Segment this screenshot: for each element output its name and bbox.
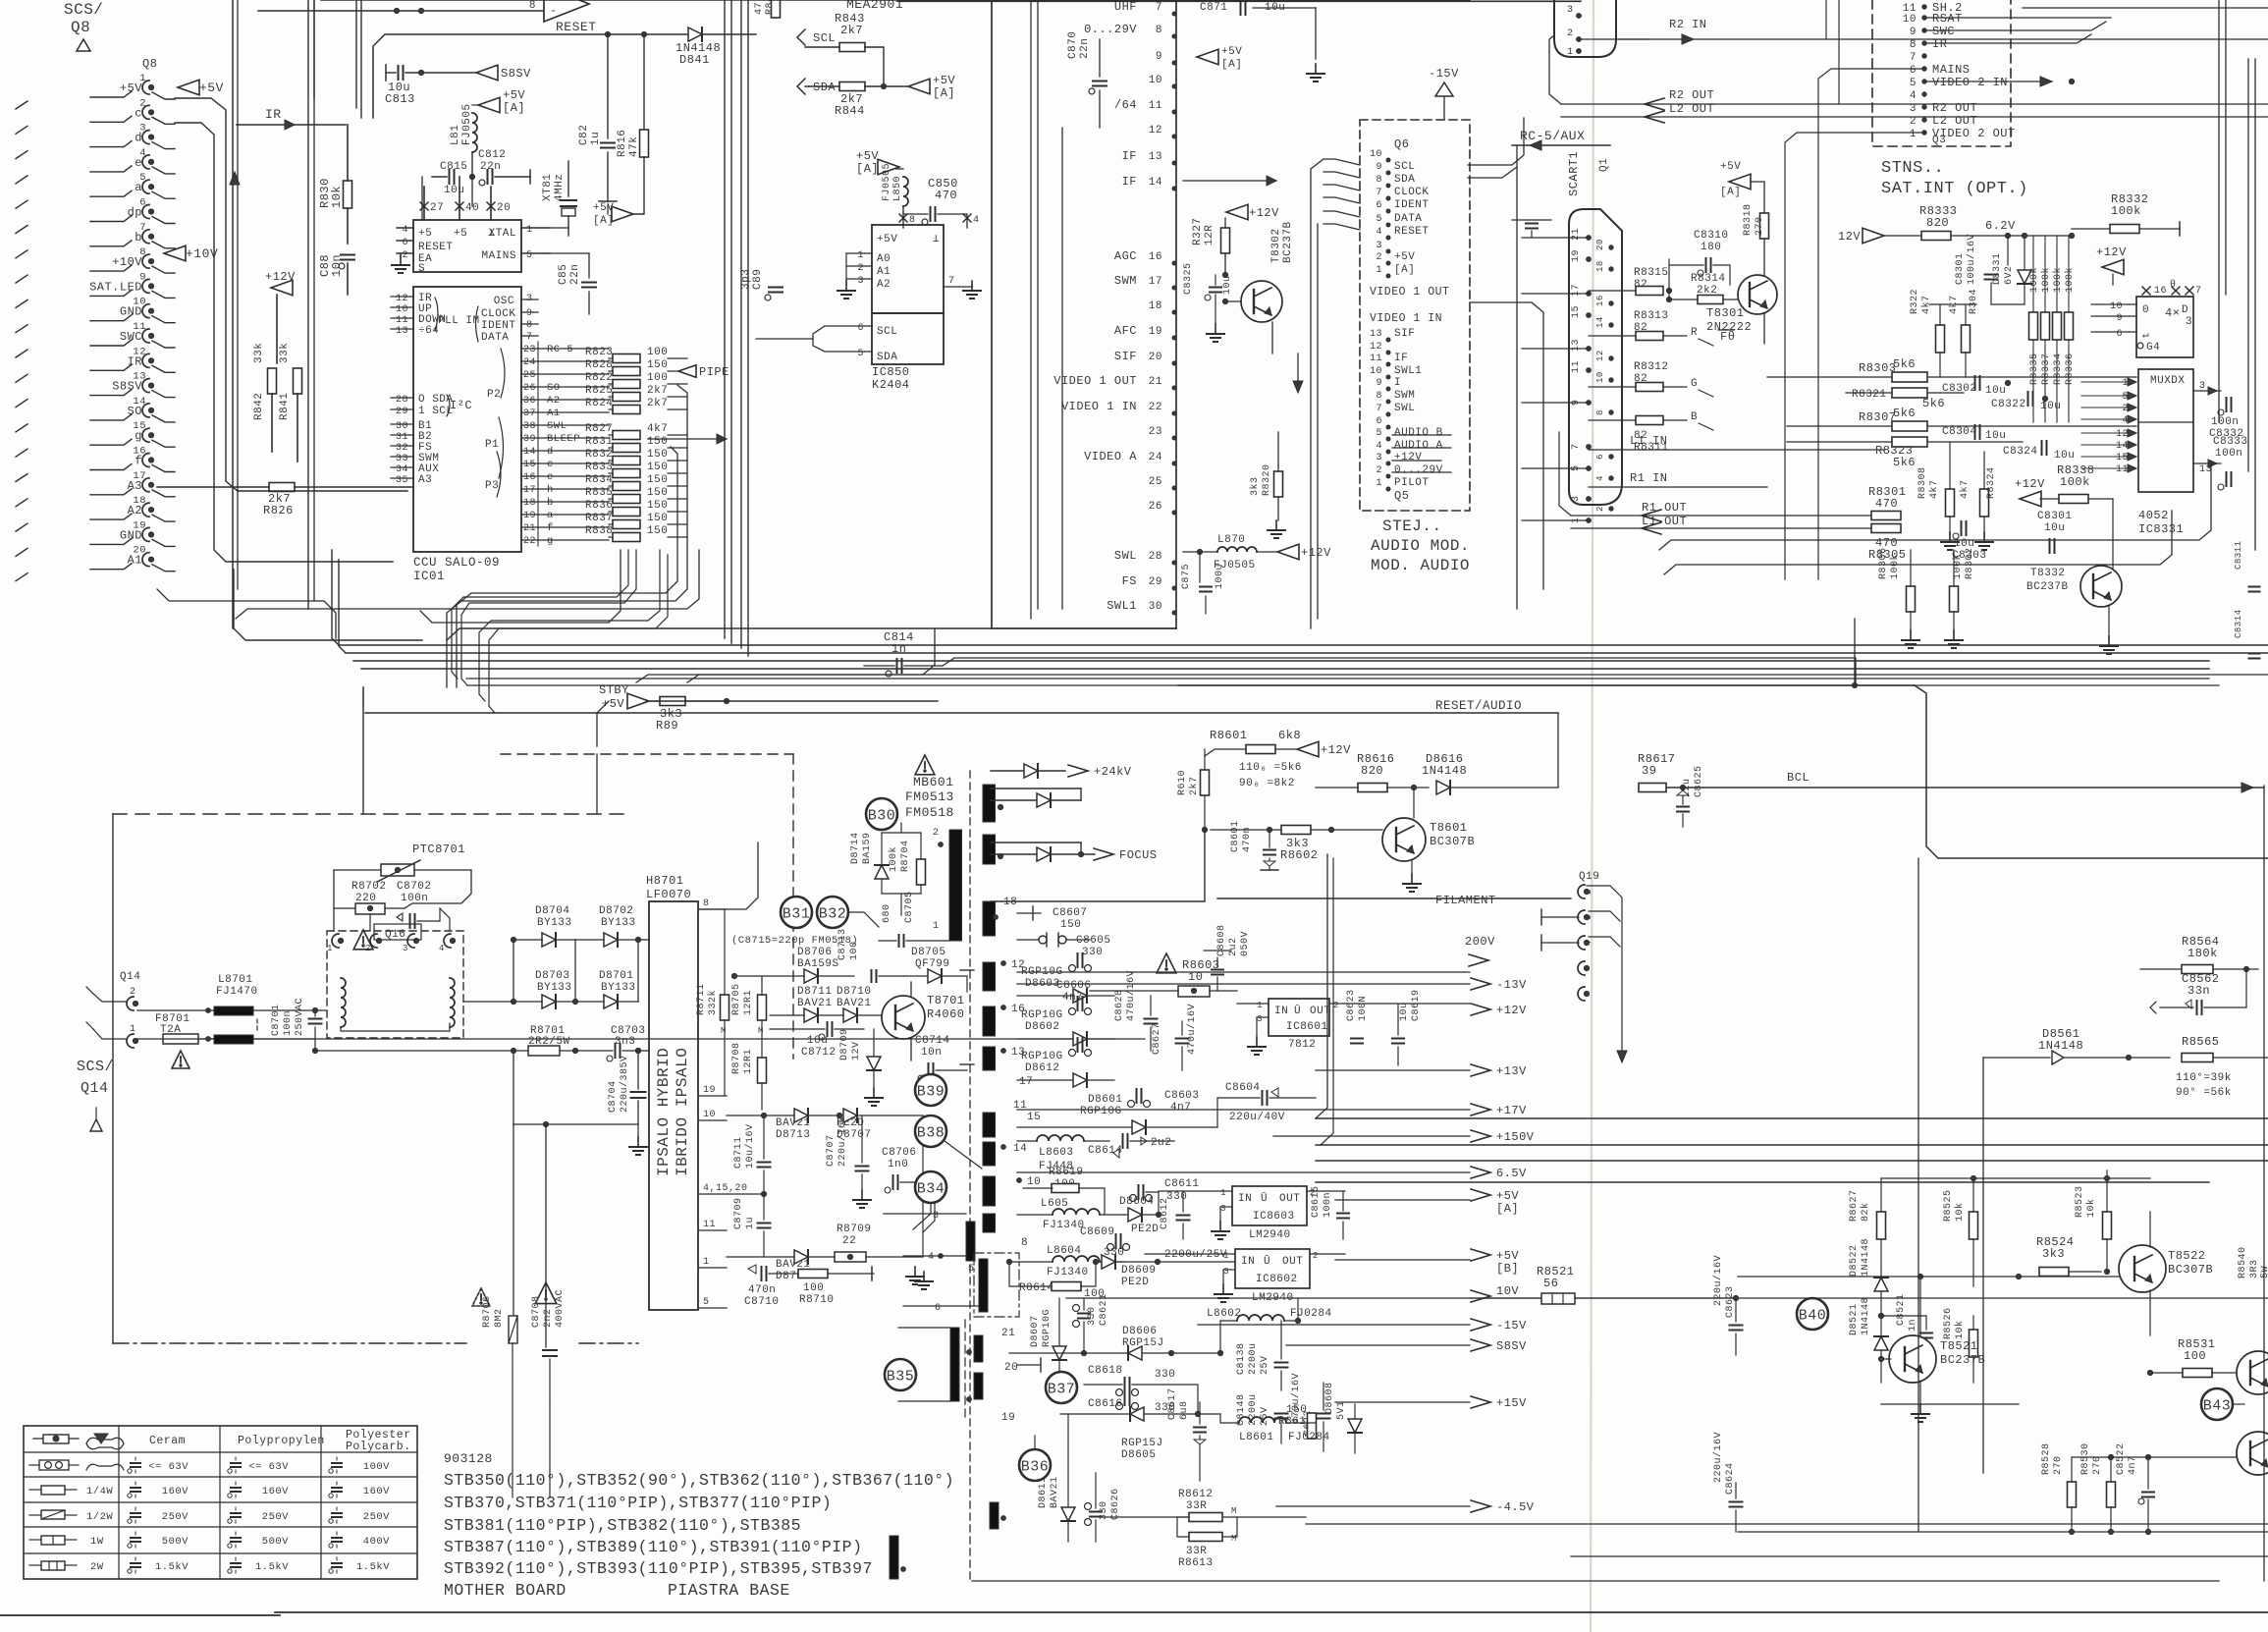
pin 24 VIDEO A bbox=[1084, 450, 1176, 465]
wire bbox=[1587, 886, 1622, 1029]
svg-text:B: B bbox=[1691, 411, 1698, 423]
wire bbox=[1017, 1109, 1470, 1111]
power +5V[A] arrow bbox=[593, 202, 633, 227]
svg-text:R4060: R4060 bbox=[927, 1007, 965, 1021]
svg-text:2200u: 2200u bbox=[1248, 1342, 1259, 1375]
circle B40 bbox=[1797, 1298, 1828, 1330]
svg-text:VIDEO 1 OUT: VIDEO 1 OUT bbox=[1053, 374, 1137, 388]
svg-text:+24kV: +24kV bbox=[1094, 765, 1132, 779]
resistor R8708 12R1 bbox=[731, 1042, 767, 1110]
svg-text:R8530: R8530 bbox=[2080, 1442, 2091, 1475]
svg-text:C8708: C8708 bbox=[531, 1295, 542, 1328]
legend cap 1.5kV bbox=[228, 1557, 289, 1573]
svg-text:a: a bbox=[547, 510, 554, 521]
pin MUX 5 bbox=[2081, 392, 2136, 403]
svg-text:200V: 200V bbox=[1465, 935, 1495, 949]
svg-text:33k: 33k bbox=[279, 343, 291, 363]
svg-text:C8616: C8616 bbox=[1088, 1398, 1123, 1410]
resistor R837 150 bbox=[585, 513, 687, 529]
svg-text:D8711: D8711 bbox=[797, 986, 833, 998]
svg-text:D8611: D8611 bbox=[1038, 1476, 1049, 1508]
svg-text:10u: 10u bbox=[2054, 450, 2075, 462]
wire bbox=[1286, 1344, 1470, 1346]
label AUDIO MOD. bbox=[1371, 537, 1470, 555]
label IBRIDO IPSALO bbox=[674, 1048, 691, 1176]
svg-text:RGP10G: RGP10G bbox=[1021, 1051, 1063, 1062]
svg-text:R8601: R8601 bbox=[1210, 729, 1248, 742]
svg-text:C8707: C8707 bbox=[826, 1134, 837, 1167]
svg-text:Fθ: Fθ bbox=[1720, 330, 1735, 344]
svg-text:C871: C871 bbox=[1200, 2, 1227, 14]
svg-text:C8710: C8710 bbox=[744, 1296, 780, 1308]
svg-text:IC01: IC01 bbox=[413, 570, 445, 583]
connector Q8 pin 9 (SAT.LED) bbox=[16, 271, 154, 307]
table header Polypropylen bbox=[238, 1435, 325, 1447]
svg-text:15: 15 bbox=[1027, 1112, 1041, 1123]
svg-text:39: 39 bbox=[523, 434, 536, 445]
svg-text:+12V: +12V bbox=[1394, 452, 1422, 463]
svg-text:12R1: 12R1 bbox=[743, 990, 754, 1015]
pin 28 SWL bbox=[1114, 549, 1176, 565]
label Q3 bbox=[1932, 135, 1946, 146]
svg-text:SCL: SCL bbox=[813, 31, 836, 45]
svg-text:20: 20 bbox=[1595, 239, 1605, 250]
svg-text:R824: R824 bbox=[585, 398, 613, 409]
wire vline 1345 bbox=[1321, 858, 1333, 1145]
power +5V arrow bbox=[178, 80, 224, 95]
pin B1 bbox=[391, 420, 432, 432]
svg-text:C815: C815 bbox=[440, 161, 467, 173]
wire bbox=[152, 117, 175, 124]
svg-text:RC-5/AUX: RC-5/AUX bbox=[1520, 129, 1585, 143]
svg-text:B34: B34 bbox=[917, 1181, 945, 1198]
svg-text:+17V: +17V bbox=[1496, 1104, 1527, 1117]
diode D8331 6V2 bbox=[1992, 233, 2031, 304]
svg-text:P1: P1 bbox=[485, 439, 499, 451]
svg-text:CCU SALO-09: CCU SALO-09 bbox=[413, 556, 500, 570]
wire bbox=[1198, 1324, 1470, 1326]
svg-text:2: 2 bbox=[1584, 889, 1593, 895]
svg-text:18: 18 bbox=[523, 498, 536, 509]
svg-text:1N4148: 1N4148 bbox=[1861, 1297, 1871, 1335]
wire filament bbox=[1217, 894, 1571, 907]
pin 1 PILOT bbox=[1376, 477, 1429, 491]
svg-text:180k: 180k bbox=[2187, 947, 2218, 960]
capacitor C8521 1n bbox=[1881, 1293, 1932, 1375]
transformer winding bar bbox=[983, 1006, 996, 1036]
pin 4 bbox=[439, 934, 456, 953]
svg-text:10k: 10k bbox=[1954, 1202, 1966, 1222]
diode D841 1N4148 bbox=[675, 27, 721, 67]
label STB392(110 bbox=[444, 1559, 873, 1578]
pin STNS 4 - bbox=[1910, 90, 1926, 102]
svg-text:10n: 10n bbox=[921, 1047, 942, 1059]
pin MUX 11 bbox=[2081, 464, 2136, 475]
svg-text:R2 OUT: R2 OUT bbox=[1669, 88, 1714, 102]
power output -4.5V bbox=[1471, 1500, 1535, 1514]
resistor R8323 5k6 bbox=[1787, 437, 2023, 469]
pin 23 RC-5 bbox=[521, 344, 609, 355]
wire up arrow bbox=[230, 172, 240, 185]
svg-text:SCL: SCL bbox=[877, 326, 897, 338]
svg-text:10: 10 bbox=[1370, 149, 1382, 160]
pin 4 AUDIO A bbox=[1376, 440, 1442, 454]
capacitor C8614 2u2 bbox=[1088, 1134, 1174, 1158]
pin 15 bbox=[1027, 1112, 1041, 1123]
svg-text:SWL: SWL bbox=[547, 420, 567, 432]
pin SCART 2 bbox=[1595, 506, 1613, 512]
svg-text:2u2: 2u2 bbox=[1151, 1137, 1171, 1149]
svg-text:150: 150 bbox=[647, 487, 668, 499]
wire bbox=[1825, 0, 1827, 39]
wire bbox=[2072, 1394, 2237, 1457]
svg-text:IF: IF bbox=[1122, 149, 1137, 163]
svg-text:6: 6 bbox=[1376, 416, 1382, 427]
svg-text:G4: G4 bbox=[2146, 342, 2160, 354]
capacitor C8302 10u bbox=[1942, 376, 2011, 397]
resistor R8601 6k8 bbox=[1205, 729, 1301, 756]
connector SCART top shell bbox=[1554, 0, 1616, 57]
svg-text:220u/16V: 220u/16V bbox=[1712, 1432, 1724, 1483]
svg-text:R844: R844 bbox=[835, 104, 865, 118]
resistor R8318 270 bbox=[1743, 182, 1769, 276]
pin MAINS bbox=[481, 250, 550, 262]
pin AUX bbox=[391, 463, 439, 475]
svg-text:FJ0284: FJ0284 bbox=[1290, 1308, 1332, 1320]
svg-text:1: 1 bbox=[1223, 1251, 1229, 1261]
wire L1 OUT bbox=[1571, 515, 1870, 534]
svg-text:330: 330 bbox=[1082, 947, 1103, 958]
pin 14 IF bbox=[1122, 175, 1176, 190]
svg-text:SWL1: SWL1 bbox=[1107, 599, 1137, 613]
capacitor C8628 470u/16V bbox=[1114, 970, 1158, 1051]
pin SCART 19 bbox=[1571, 249, 1591, 262]
svg-text:FJ1470: FJ1470 bbox=[216, 986, 258, 998]
svg-text:10u: 10u bbox=[1985, 430, 2006, 442]
wire bbox=[152, 490, 175, 497]
svg-text:R825: R825 bbox=[585, 385, 613, 397]
wire bbox=[86, 987, 126, 1039]
label 6.2V bbox=[1985, 219, 2075, 239]
capacitor C814 1n bbox=[864, 630, 943, 677]
wire loop2 bbox=[420, 550, 621, 623]
pin IPSALO 5 bbox=[699, 1297, 727, 1308]
power 12V arrow bbox=[1838, 228, 1921, 244]
pin Q19 2 bbox=[1578, 910, 1593, 924]
svg-text:150: 150 bbox=[647, 525, 668, 537]
svg-text:9: 9 bbox=[1376, 378, 1382, 389]
pin 3 bbox=[884, 1211, 966, 1222]
svg-text:19: 19 bbox=[1571, 249, 1582, 262]
svg-text:220u/40V: 220u/40V bbox=[1229, 1112, 1285, 1123]
svg-text:9: 9 bbox=[1156, 51, 1162, 63]
svg-text:+13V: +13V bbox=[1496, 1064, 1527, 1078]
svg-text:470: 470 bbox=[935, 189, 957, 202]
pin 22 VIDEO 1 IN bbox=[1061, 400, 1176, 415]
resistor R8523 10k bbox=[2075, 1170, 2112, 1272]
pin STNS 9 SWC bbox=[1910, 25, 1955, 38]
power output 6.5V bbox=[1471, 1167, 1527, 1180]
svg-text:IR: IR bbox=[265, 107, 282, 122]
svg-text:S8SV: S8SV bbox=[501, 67, 531, 81]
ground bbox=[1403, 874, 1421, 892]
capacitor C8601 470n bbox=[1230, 820, 1278, 870]
capacitor C8301 100u/16V bbox=[1955, 234, 2008, 304]
resistor R8332 100k bbox=[2072, 192, 2180, 236]
transistor T8601 BC307B bbox=[1382, 788, 1475, 877]
pin 2 bbox=[127, 987, 138, 1010]
junction bbox=[469, 174, 474, 179]
resistor R8702 220 bbox=[334, 881, 405, 914]
transformer winding bar bbox=[950, 1328, 959, 1401]
wire pin 4,15,20 bbox=[727, 1193, 776, 1195]
resistor R825 2k7 bbox=[585, 385, 687, 402]
svg-text:Polypropylen: Polypropylen bbox=[238, 1435, 325, 1447]
svg-text:5: 5 bbox=[526, 250, 533, 261]
wire bbox=[1541, 909, 1579, 925]
svg-text:R826: R826 bbox=[263, 504, 294, 517]
svg-text:100N: 100N bbox=[1358, 996, 1369, 1021]
svg-text:100: 100 bbox=[647, 372, 668, 384]
svg-text:3k3: 3k3 bbox=[2042, 1247, 2065, 1261]
svg-text:S8SV: S8SV bbox=[1496, 1339, 1527, 1353]
capacitor C8324 10u bbox=[2003, 441, 2075, 462]
svg-text:[A]: [A] bbox=[933, 86, 955, 100]
capacitor C622 470u/16V bbox=[1290, 1373, 1330, 1451]
connector Q8 pin 6 (dp) bbox=[16, 197, 154, 234]
svg-text:R8565: R8565 bbox=[2182, 1035, 2220, 1049]
svg-text:30: 30 bbox=[1149, 601, 1162, 613]
diode D8604 PE2D bbox=[1119, 1196, 1161, 1235]
svg-text:12: 12 bbox=[1149, 125, 1162, 136]
label CLOCK IDENT DATA bbox=[476, 306, 516, 344]
svg-text:1: 1 bbox=[1257, 1001, 1263, 1010]
svg-text:9: 9 bbox=[1376, 162, 1382, 173]
pin SCART 20 bbox=[1595, 239, 1613, 250]
svg-text:P2: P2 bbox=[487, 389, 501, 401]
pin 40 mark bbox=[454, 177, 479, 240]
pin 8 0...29V bbox=[1084, 23, 1176, 38]
capacitor C8311 bbox=[2234, 540, 2260, 591]
circle B37 bbox=[1046, 1372, 1077, 1403]
pin SWM bbox=[391, 453, 439, 464]
IC8602 LM2940 bbox=[1145, 1249, 1345, 1304]
pin 14 d bbox=[521, 446, 609, 458]
svg-text:1u: 1u bbox=[745, 1217, 756, 1229]
svg-text:IR: IR bbox=[1932, 37, 1947, 51]
wire bbox=[1330, 830, 1332, 837]
pin MUX 14 bbox=[2081, 441, 2136, 452]
transformer winding bar bbox=[990, 1502, 1005, 1529]
svg-text:-15V: -15V bbox=[1429, 67, 1459, 81]
svg-text:D: D bbox=[2182, 304, 2188, 316]
power +12V arrow bbox=[2096, 245, 2127, 285]
svg-text:C8625: C8625 bbox=[1694, 765, 1704, 797]
pin MUX 13 bbox=[2193, 460, 2221, 475]
svg-text:1: 1 bbox=[933, 921, 940, 932]
circle B43 bbox=[2201, 1388, 2244, 1420]
label 110=39k bbox=[2176, 1072, 2232, 1099]
capacitor C8607 150 bbox=[1017, 907, 1090, 947]
svg-text:R8308: R8308 bbox=[1917, 466, 1928, 499]
wire bbox=[1557, 713, 1559, 788]
power +5V[A] arrow bbox=[908, 74, 955, 100]
svg-text:1: 1 bbox=[857, 250, 864, 261]
capacitor C8625 22u bbox=[1677, 765, 1704, 827]
svg-text:160V: 160V bbox=[162, 1486, 189, 1497]
label IC850 K2404 bbox=[872, 365, 910, 392]
svg-text:7: 7 bbox=[1910, 52, 1917, 64]
wire bbox=[1323, 172, 1360, 178]
svg-text:+5V: +5V bbox=[503, 88, 525, 102]
label STB350(110 bbox=[444, 1471, 954, 1490]
svg-text:PLL IM: PLL IM bbox=[438, 315, 480, 327]
transistor T8522 BC307B bbox=[2119, 1212, 2213, 1335]
capacitor C8612 2200u/25V bbox=[1160, 1191, 1227, 1261]
label STB370,STB bbox=[444, 1494, 832, 1512]
legend cap 250V bbox=[329, 1507, 390, 1523]
svg-text:8M2: 8M2 bbox=[494, 1308, 505, 1328]
svg-text:C8314: C8314 bbox=[2234, 609, 2243, 638]
wire scart loops2 bbox=[1664, 511, 2172, 574]
pin SCART 15 bbox=[1571, 305, 1591, 318]
svg-text:STNS..: STNS.. bbox=[1881, 159, 1944, 178]
svg-text:STB387(110°),STB389(110°),STB3: STB387(110°),STB389(110°),STB391(110°PIP… bbox=[444, 1538, 862, 1556]
svg-text:31: 31 bbox=[396, 432, 408, 443]
resistor R8711 332k bbox=[696, 909, 729, 1095]
capacitor C8624 220u/16V bbox=[1712, 1432, 1743, 1532]
svg-text:250V: 250V bbox=[363, 1511, 390, 1523]
wire bbox=[747, 0, 749, 656]
svg-text:10: 10 bbox=[2110, 301, 2123, 312]
resistor R8338 100k bbox=[2040, 463, 2113, 504]
svg-text:B36: B36 bbox=[1021, 1459, 1050, 1476]
inductor L8701 FJ1470 bbox=[137, 974, 327, 1044]
svg-text:11: 11 bbox=[703, 1220, 716, 1230]
svg-text:LM2940: LM2940 bbox=[1249, 1229, 1291, 1241]
svg-text:7812: 7812 bbox=[1288, 1039, 1316, 1051]
svg-text:R8526: R8526 bbox=[1943, 1307, 1954, 1339]
svg-text:22n: 22n bbox=[1079, 38, 1091, 59]
resistor R822 100 bbox=[585, 372, 687, 389]
svg-text:8: 8 bbox=[529, 0, 536, 12]
svg-text:L8601: L8601 bbox=[1239, 1432, 1274, 1443]
pin SCART 1 bbox=[1571, 517, 1591, 523]
pin 13 SIF bbox=[1370, 328, 1415, 342]
resistor R833 150 bbox=[585, 462, 687, 478]
transistor T2 bbox=[2237, 1432, 2268, 1475]
svg-text:AUDIO MOD.: AUDIO MOD. bbox=[1371, 537, 1470, 555]
svg-text:150: 150 bbox=[647, 449, 668, 461]
svg-text:C8605: C8605 bbox=[1076, 935, 1111, 947]
pin DOWN bbox=[391, 314, 446, 326]
resistor R8334 100k bbox=[2052, 236, 2064, 422]
svg-text:STB370,STB371(110°PIP),STB377(: STB370,STB371(110°PIP),STB377(110°PIP) bbox=[444, 1494, 832, 1512]
wire bbox=[1316, 1181, 2209, 1183]
svg-text:C8521: C8521 bbox=[1896, 1293, 1907, 1326]
svg-text:PE2D: PE2D bbox=[1131, 1224, 1159, 1235]
pin 12 - bbox=[1149, 125, 1176, 138]
svg-text:FS: FS bbox=[1122, 574, 1137, 588]
svg-text:10: 10 bbox=[1149, 75, 1162, 86]
svg-text:15: 15 bbox=[1571, 305, 1582, 318]
warning R8603 10 bbox=[1090, 953, 1237, 997]
svg-text:D8704: D8704 bbox=[535, 905, 570, 917]
label STB381(110 bbox=[444, 1516, 801, 1535]
wire bbox=[1917, 858, 1919, 1532]
pin 6 bbox=[2091, 329, 2136, 340]
svg-text:SCL: SCL bbox=[1394, 161, 1415, 173]
svg-text:160V: 160V bbox=[363, 1486, 390, 1497]
connector Q8 pin 20 (A1) bbox=[16, 545, 154, 581]
diode D8602 RGP10G bbox=[1017, 980, 1114, 1046]
wire IR line bbox=[237, 107, 346, 130]
svg-text:13: 13 bbox=[1370, 329, 1382, 340]
resistor R89 3k3 bbox=[646, 697, 729, 734]
svg-text:b: b bbox=[547, 497, 554, 509]
svg-text:4k7: 4k7 bbox=[1959, 479, 1971, 499]
wire bus bbox=[175, 123, 393, 562]
wire dashed section divider bbox=[113, 813, 628, 815]
svg-text:FM0518: FM0518 bbox=[905, 805, 954, 820]
svg-text:SCART1: SCART1 bbox=[1567, 151, 1581, 196]
pin 18 bbox=[994, 897, 1018, 919]
svg-text:L850: L850 bbox=[892, 176, 903, 201]
power +5V[A] arrow bbox=[478, 88, 525, 115]
svg-text:SDA: SDA bbox=[813, 81, 836, 94]
wire bbox=[537, 444, 539, 457]
svg-text:330: 330 bbox=[1155, 1369, 1175, 1381]
connector Q8 pin 5 (a) bbox=[16, 172, 154, 208]
svg-text:3: 3 bbox=[2199, 381, 2206, 392]
connector Q8 bbox=[142, 57, 157, 71]
svg-text:L605: L605 bbox=[1041, 1198, 1068, 1210]
pin 8 bbox=[1021, 1237, 1028, 1249]
svg-text:A2: A2 bbox=[547, 395, 561, 407]
capacitor C8522 4n7 bbox=[2116, 1442, 2154, 1532]
resistor R8524 3k3 bbox=[2019, 1235, 2110, 1277]
svg-text:R838: R838 bbox=[585, 525, 613, 537]
svg-text:B37: B37 bbox=[1048, 1382, 1076, 1398]
pin 9 bbox=[521, 308, 538, 319]
svg-text:IDENT: IDENT bbox=[1394, 199, 1430, 211]
ground bbox=[1307, 64, 1324, 82]
svg-text:10u: 10u bbox=[1985, 385, 2006, 397]
svg-text:82k: 82k bbox=[1860, 1202, 1871, 1222]
pin 13 bbox=[1001, 1047, 1026, 1059]
label Q5 bbox=[1394, 489, 1409, 503]
svg-text:C8626: C8626 bbox=[1110, 1488, 1121, 1520]
svg-text:D841: D841 bbox=[679, 53, 710, 67]
legend cap 160V bbox=[228, 1482, 289, 1497]
resistor R838 150 bbox=[585, 525, 687, 542]
svg-text:10k: 10k bbox=[2085, 1198, 2097, 1218]
wire bbox=[152, 515, 175, 521]
pin 17 bbox=[1019, 1076, 1033, 1088]
resistor R827 4k7 bbox=[585, 423, 687, 440]
svg-text:B30: B30 bbox=[868, 808, 896, 825]
pin SCL 29 bbox=[391, 406, 454, 417]
capacitor top stub bbox=[1512, 220, 1551, 238]
label MOD. AUDIO bbox=[1371, 557, 1470, 574]
svg-text:RSAT: RSAT bbox=[1932, 12, 1963, 26]
svg-text:20: 20 bbox=[1149, 352, 1162, 363]
capacitor C850 470 bbox=[903, 177, 967, 228]
svg-text:R8318: R8318 bbox=[1743, 203, 1754, 236]
svg-text:16: 16 bbox=[1595, 295, 1605, 306]
pin FS bbox=[391, 442, 432, 454]
wire video2in bbox=[1924, 77, 2075, 86]
